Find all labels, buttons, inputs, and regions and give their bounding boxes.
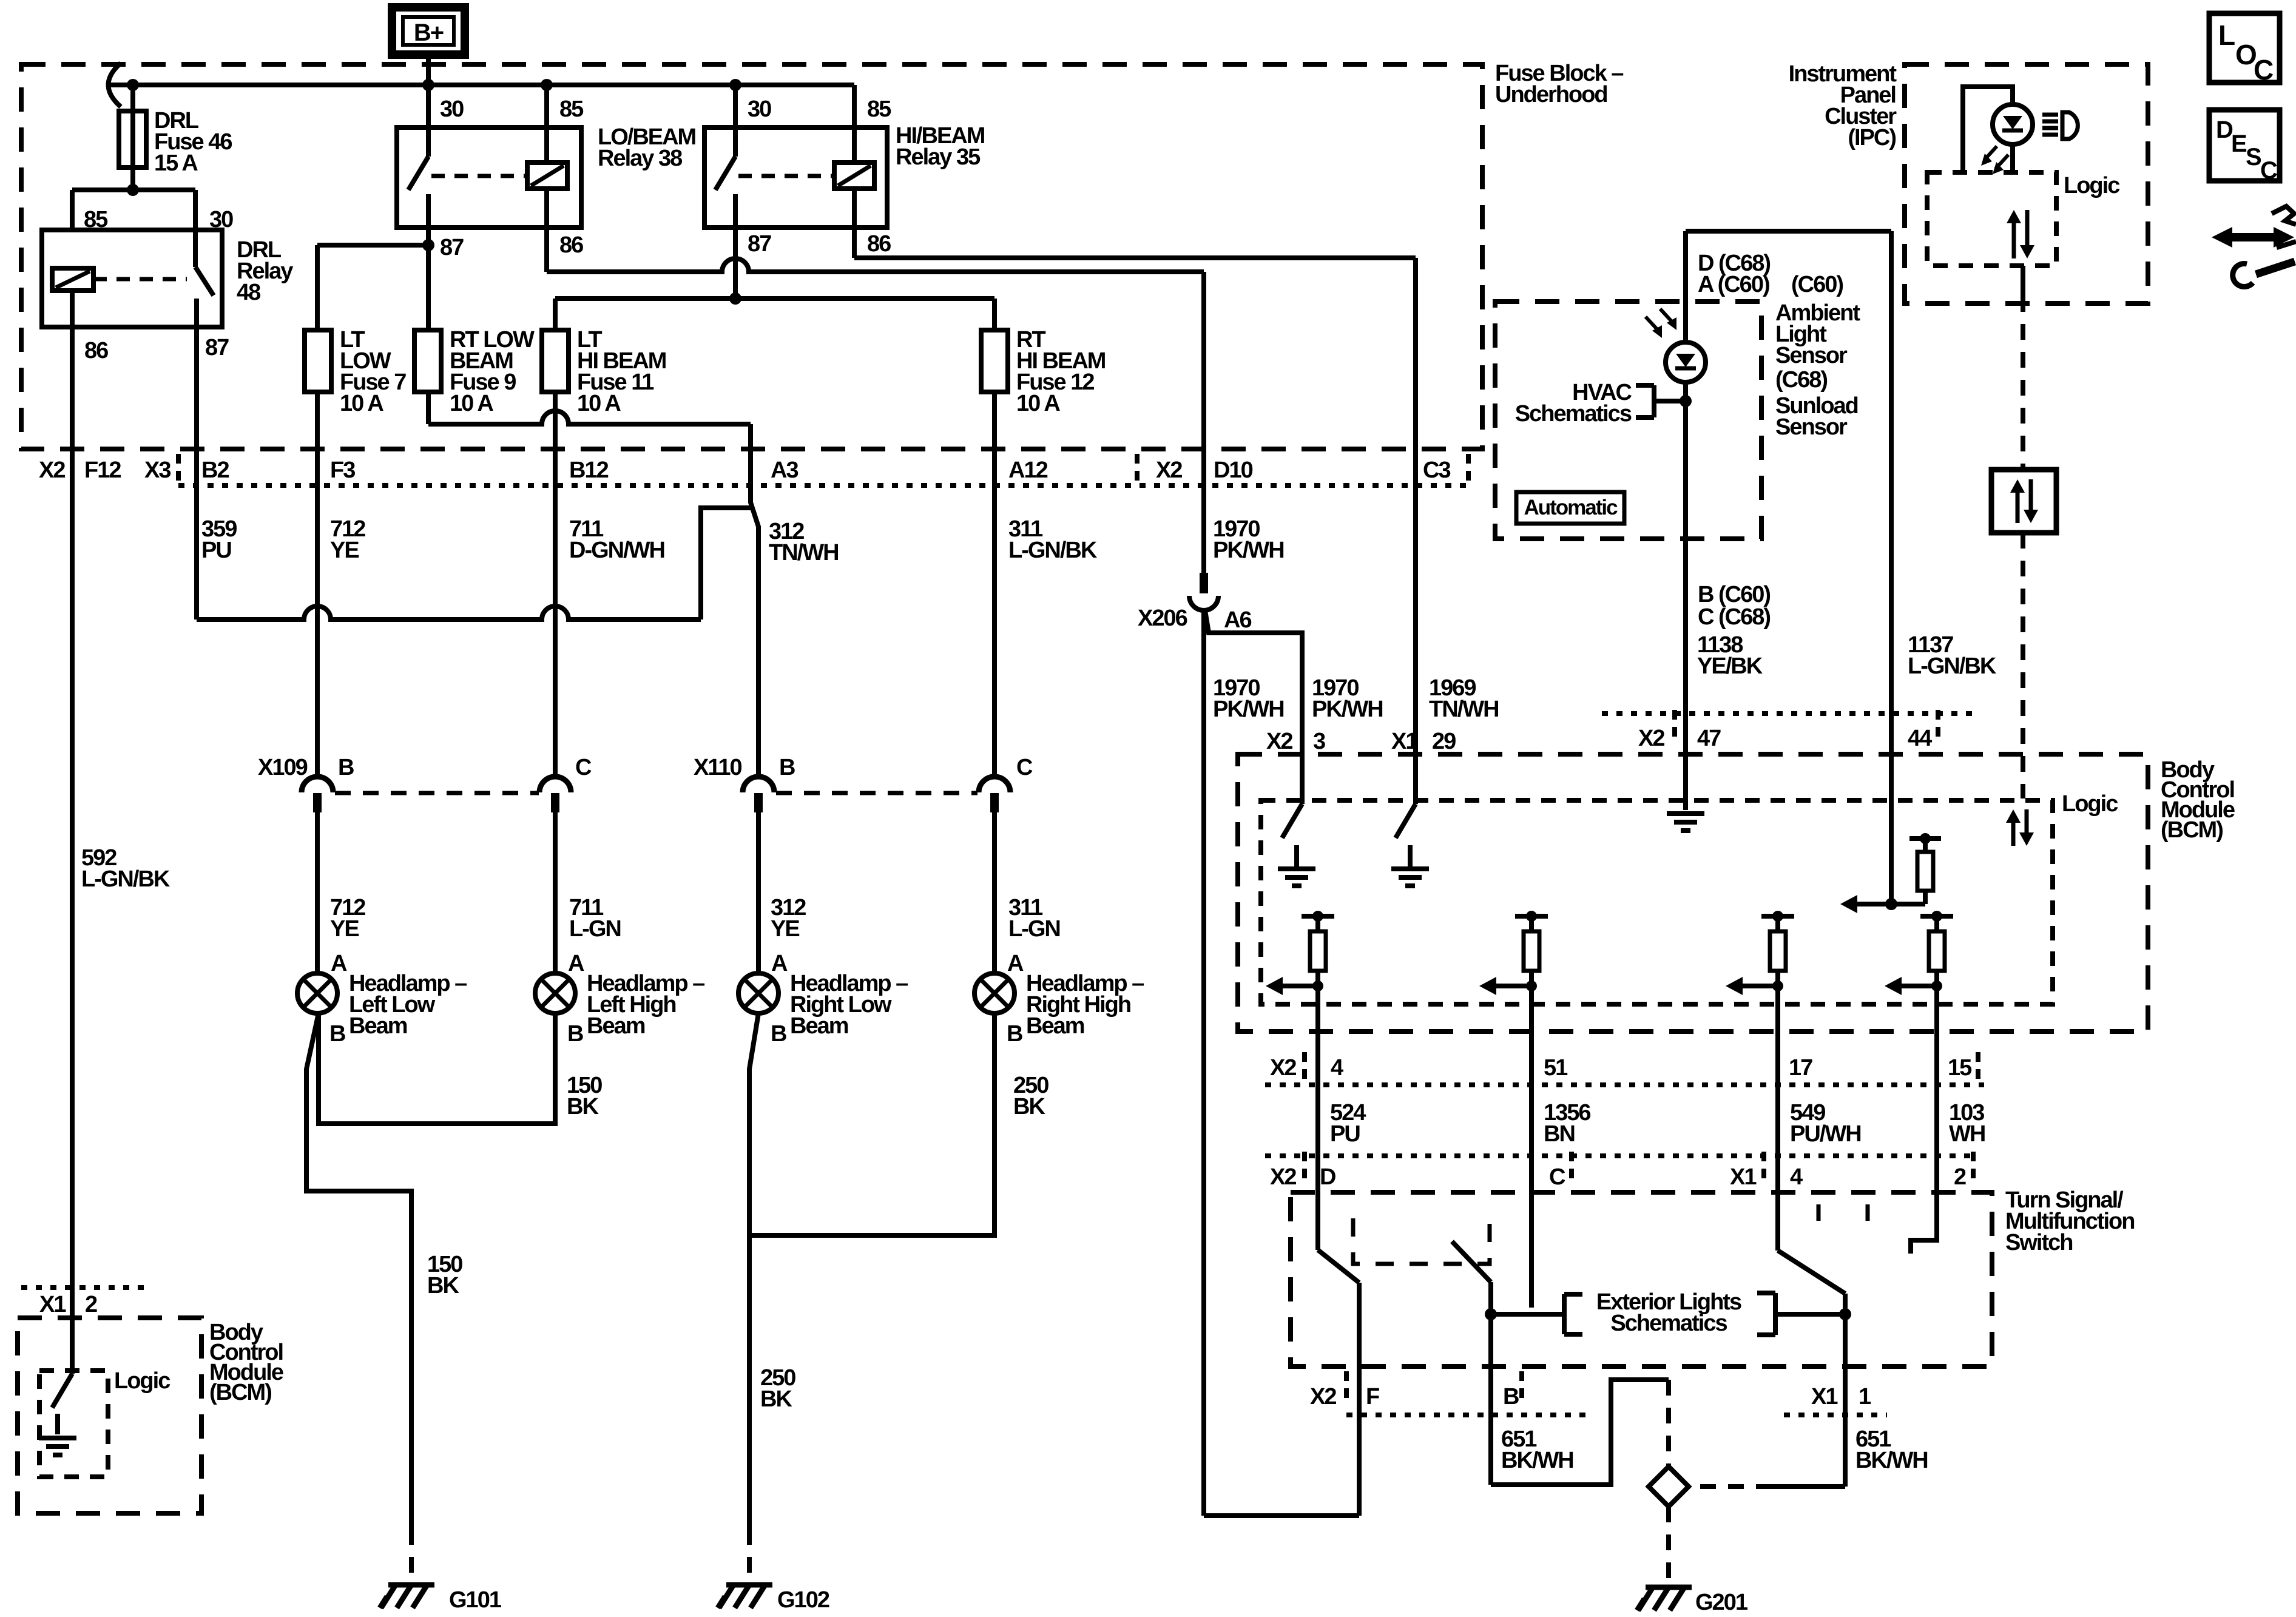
Exterior Lights callout right bracket <box>1773 1293 1778 1335</box>
wire 1356 BN <box>1529 986 1534 1308</box>
svg-text:48: 48 <box>237 280 260 305</box>
BCM internal ground for X2-47 <box>1683 754 1688 810</box>
svg-text:10 A: 10 A <box>340 391 383 416</box>
svg-text:X1: X1 <box>1811 1384 1838 1409</box>
bus continuation squiggle (off-page) <box>109 63 121 107</box>
svg-text:B: B <box>329 1021 345 1047</box>
wire 1970 PK/WH continues down from X206 <box>1201 609 1206 1516</box>
BCM Logic inner dashed box <box>1261 800 2053 1004</box>
wire 1970 PK/WH D10 down to X206 <box>1201 272 1206 573</box>
svg-text:Logic: Logic <box>114 1368 171 1394</box>
icon DESC box <box>2209 110 2280 181</box>
wire 150 BK left high beam return <box>319 1013 555 1124</box>
svg-text:BK: BK <box>567 1094 599 1119</box>
IPC Logic dashed box <box>1927 172 2056 266</box>
svg-text:L-GN/BK: L-GN/BK <box>81 866 171 892</box>
BCM top connector fine-dot line <box>1602 711 1978 716</box>
svg-text:C: C <box>575 755 592 780</box>
wire LO/BEAM pin87 to fuses 7/9 <box>426 228 431 245</box>
wire 1970 PK/WH branch to BCM X2-3 <box>1205 610 1302 804</box>
connector X109 pin B <box>302 777 333 792</box>
svg-text:PK/WH: PK/WH <box>1213 538 1284 563</box>
svg-text:PU: PU <box>1330 1121 1360 1147</box>
lamp Headlamp Right High Beam <box>974 973 1015 1013</box>
svg-text:85: 85 <box>84 207 108 232</box>
ground G201 <box>1646 1585 1692 1590</box>
svg-text:(BCM): (BCM) <box>2161 817 2223 843</box>
node B+ battery positive terminal <box>392 7 465 55</box>
BCM driver output pin51 <box>1515 914 1548 919</box>
wire dashed logic link continues to BCM <box>2021 533 2025 798</box>
svg-text:G201: G201 <box>1695 1590 1748 1615</box>
wire 359 PU from B2 <box>194 327 199 619</box>
svg-text:Sensor: Sensor <box>1775 343 1848 368</box>
svg-text:A: A <box>568 951 584 976</box>
wire 712 YE F3 to X109-B <box>315 392 320 777</box>
svg-text:L-GN: L-GN <box>1008 916 1060 942</box>
svg-text:A: A <box>771 951 788 976</box>
svg-text:YE: YE <box>330 538 359 563</box>
svg-text:PK/WH: PK/WH <box>1213 697 1284 722</box>
switch open contact pin 2 <box>1911 1192 1937 1254</box>
svg-text:86: 86 <box>559 232 583 258</box>
BCM bottom-left Logic dashed box <box>39 1371 108 1477</box>
svg-text:17: 17 <box>1789 1055 1812 1081</box>
svg-text:BK: BK <box>760 1386 792 1412</box>
svg-text:Logic: Logic <box>2064 173 2120 198</box>
svg-text:87: 87 <box>205 335 229 360</box>
wire 359 PU horizontal run with hops over 712 and 711 <box>197 606 701 619</box>
svg-text:Beam: Beam <box>1026 1013 1084 1039</box>
wire 250 BK right high beam return <box>749 1013 994 1235</box>
HVAC dashed box <box>1495 302 1761 539</box>
connector row fine-dot line under fuse block <box>178 483 1471 488</box>
svg-text:30: 30 <box>748 96 771 122</box>
relay HI/BEAM Relay 35 box <box>704 127 887 228</box>
wire dashed lead into G101 <box>409 1529 414 1578</box>
svg-text:2: 2 <box>85 1292 97 1317</box>
svg-text:D-GN/WH: D-GN/WH <box>569 538 664 563</box>
svg-text:F: F <box>1366 1384 1379 1409</box>
connector X109 dashed mate line <box>335 791 539 795</box>
svg-text:F12: F12 <box>84 457 121 483</box>
sensor ambient light / sunload photodiode <box>1666 342 1706 382</box>
svg-text:Beam: Beam <box>790 1013 848 1039</box>
svg-text:O: O <box>2235 39 2256 70</box>
svg-text:G102: G102 <box>777 1587 829 1613</box>
svg-text:X3: X3 <box>144 457 171 483</box>
svg-text:X1: X1 <box>1730 1164 1757 1190</box>
IPC/BCM interface up-down box <box>1991 470 2056 533</box>
svg-text:PU/WH: PU/WH <box>1790 1121 1861 1147</box>
lamp Headlamp Left Low Beam <box>297 973 337 1013</box>
relay HI/BEAM coil link dashed <box>738 174 834 178</box>
svg-text:D10: D10 <box>1214 457 1253 483</box>
svg-text:L-GN/BK: L-GN/BK <box>1908 653 1997 679</box>
svg-text:30: 30 <box>440 96 464 122</box>
wire 651 BK/WH from B <box>1488 1366 1493 1485</box>
switch mechanical dashed link left <box>1353 1218 1490 1264</box>
wire F output joins 1970 PK/WH <box>1357 1366 1362 1516</box>
wire left low beam ground lead to G101 <box>306 1013 411 1529</box>
BCM switch to ground for X1-29 <box>1396 804 1416 838</box>
wire 311 L-GN/BK A12 to X110-C <box>992 392 997 777</box>
fuse DRL Fuse 46 15A <box>130 85 135 190</box>
svg-text:YE: YE <box>330 916 359 942</box>
connector separator X3 <box>176 454 181 484</box>
svg-text:C: C <box>2260 157 2277 184</box>
relay LO/BEAM Relay 38 box <box>397 127 581 228</box>
svg-text:B12: B12 <box>569 457 609 483</box>
icon LOC box <box>2209 13 2280 83</box>
connector X110 pin B <box>743 777 774 792</box>
svg-text:S: S <box>2246 144 2261 170</box>
relay DRL Relay 48 box <box>42 230 222 327</box>
svg-text:B: B <box>779 755 795 780</box>
relay LO/BEAM coil link dashed <box>431 174 527 178</box>
wire 524 PU <box>1315 986 1320 1250</box>
svg-text:A (C60): A (C60) <box>1698 272 1769 297</box>
svg-text:A3: A3 <box>771 457 798 483</box>
fuse RT HI BEAM Fuse 12 10A <box>992 299 997 392</box>
wire DRL pin86 down (becomes 592) <box>70 291 75 327</box>
svg-text:BK: BK <box>427 1273 459 1298</box>
svg-text:(C60): (C60) <box>1791 272 1843 297</box>
wire 711 D-GN/WH B12 to X109-C <box>553 392 558 777</box>
BCM bottom connector labels <box>1265 1082 1984 1087</box>
svg-text:YE: YE <box>771 916 799 942</box>
svg-text:X109: X109 <box>258 755 308 780</box>
fuse LT LOW Fuse 7 10A <box>305 330 331 392</box>
svg-text:L-GN: L-GN <box>569 916 621 942</box>
switch blade pin 4 to 1 <box>1775 1192 1780 1251</box>
svg-text:15: 15 <box>1948 1055 1972 1081</box>
svg-text:D: D <box>2216 116 2233 143</box>
wire 651 BK/WH from X1-1 <box>1843 1366 1848 1487</box>
svg-text:YE/BK: YE/BK <box>1697 653 1763 679</box>
wire IPC logic to BCM (dashed logic link) <box>2021 266 2025 296</box>
connector X206 pin A6 <box>1200 573 1208 593</box>
svg-text:Logic: Logic <box>2062 791 2118 817</box>
connector X110 pin C <box>979 777 1010 792</box>
svg-text:F3: F3 <box>330 457 355 483</box>
svg-text:10 A: 10 A <box>450 391 493 416</box>
svg-text:X2: X2 <box>1270 1055 1296 1081</box>
connector X109 pin C <box>539 777 571 792</box>
switch blade second throw to Exterior Lights <box>1452 1241 1491 1282</box>
svg-text:X2: X2 <box>39 457 65 483</box>
svg-text:4: 4 <box>1790 1164 1803 1190</box>
svg-text:Beam: Beam <box>349 1013 407 1039</box>
svg-text:Schematics: Schematics <box>1610 1311 1727 1336</box>
svg-text:B2: B2 <box>201 457 229 483</box>
svg-text:87: 87 <box>748 231 771 257</box>
ground G102 <box>726 1582 772 1588</box>
Exterior Lights callout left bracket <box>1562 1294 1567 1334</box>
svg-text:87: 87 <box>440 235 464 260</box>
svg-text:G101: G101 <box>449 1587 502 1613</box>
wire LO/BEAM pin86 to D10 (hops pin87 of HI relay) <box>544 189 549 272</box>
wire 103 WH <box>1934 986 1939 1240</box>
svg-text:A6: A6 <box>1224 607 1251 633</box>
svg-text:X2: X2 <box>1270 1164 1296 1190</box>
fuse RT LOW BEAM Fuse 9 10A <box>426 245 431 392</box>
svg-text:3: 3 <box>1313 729 1325 754</box>
svg-text:B: B <box>1503 1384 1519 1409</box>
svg-text:B: B <box>1007 1021 1022 1047</box>
svg-text:10 A: 10 A <box>1016 391 1060 416</box>
lamp Headlamp Left High Beam <box>535 973 575 1013</box>
wire right low beam ground lead to G102 <box>749 1013 758 1529</box>
wire 592 L-GN/BK F12 to BCM <box>70 327 75 1374</box>
relay HI/BEAM switch blade <box>733 85 738 157</box>
svg-text:X206: X206 <box>1138 606 1187 631</box>
BCM logic up/down arrows <box>2011 818 2016 846</box>
svg-text:86: 86 <box>84 338 108 363</box>
Body Control Module (BCM) bottom-left dashed box <box>18 1318 201 1513</box>
IPC logic up/down arrows <box>2012 218 2016 258</box>
Turn Signal/Multifunction Switch dashed box <box>1291 1192 1992 1366</box>
svg-text:86: 86 <box>867 231 891 257</box>
wire sensor loop top <box>1686 229 1891 234</box>
svg-text:A12: A12 <box>1008 457 1048 483</box>
svg-text:A: A <box>331 951 347 976</box>
Turn Signal switch connector fine-dot line <box>1265 1153 1978 1158</box>
svg-text:X2: X2 <box>1310 1384 1336 1409</box>
svg-text:Relay 35: Relay 35 <box>896 144 981 170</box>
relay LO/BEAM coil <box>544 85 549 163</box>
BCM driver output pin4 <box>1302 914 1334 919</box>
fuse LT HI BEAM Fuse 11 10A <box>553 299 558 392</box>
svg-text:PU: PU <box>201 538 231 563</box>
wire sensor down to BCM X2-47 <box>1683 382 1688 754</box>
switch mechanical dashed marks right <box>1817 1204 1821 1221</box>
relay HI/BEAM coil <box>852 85 857 163</box>
svg-text:Beam: Beam <box>587 1013 645 1039</box>
svg-text:BK: BK <box>1013 1094 1045 1119</box>
svg-text:15 A: 15 A <box>154 150 198 176</box>
wire dashed diamond to G201 <box>1666 1507 1671 1580</box>
relay LO/BEAM switch blade <box>426 85 431 157</box>
svg-text:PK/WH: PK/WH <box>1312 697 1383 722</box>
svg-text:B (C60): B (C60) <box>1698 582 1770 607</box>
relay DRL coil <box>52 268 93 291</box>
svg-text:X1: X1 <box>1391 729 1418 754</box>
svg-text:85: 85 <box>867 96 891 122</box>
svg-text:29: 29 <box>1432 729 1456 754</box>
svg-text:BK/WH: BK/WH <box>1855 1448 1928 1473</box>
Body Control Module outer dashed box <box>1238 754 2148 1031</box>
svg-text:X110: X110 <box>694 755 742 780</box>
svg-text:BK/WH: BK/WH <box>1501 1448 1573 1473</box>
svg-text:X2: X2 <box>1156 457 1182 483</box>
wire 312 YE to right low lamp <box>756 812 761 973</box>
svg-text:Schematics: Schematics <box>1515 401 1632 427</box>
svg-text:E: E <box>2231 130 2247 157</box>
wire 712 YE to left low lamp <box>315 812 320 973</box>
wire fuse46 to DRL relay header <box>127 184 139 196</box>
Fuse Block - Underhood dashed outline <box>21 64 1482 449</box>
svg-text:2: 2 <box>1954 1164 1966 1190</box>
IPC high-beam indicator lamp <box>1993 104 2033 144</box>
relay DRL switch blade <box>193 230 198 267</box>
ground G101 <box>388 1582 434 1588</box>
svg-text:X2: X2 <box>1638 726 1664 751</box>
svg-text:L-GN/BK: L-GN/BK <box>1008 538 1098 563</box>
svg-text:A: A <box>1007 951 1024 976</box>
wire dashed into splice diamond <box>1666 1380 1671 1467</box>
svg-text:Sensor: Sensor <box>1775 414 1848 440</box>
wire dashed lead into G102 <box>747 1529 752 1578</box>
connector separator C3 <box>1466 454 1471 484</box>
svg-text:51: 51 <box>1544 1055 1568 1081</box>
HVAC Schematics callout bracket <box>1652 385 1656 417</box>
svg-text:C: C <box>1549 1164 1565 1190</box>
svg-text:X1: X1 <box>39 1292 66 1317</box>
svg-text:B+: B+ <box>414 19 444 46</box>
splice diamond <box>1649 1467 1689 1507</box>
svg-text:L: L <box>2218 19 2235 51</box>
wire 1969 TN/WH C3 to BCM X1-29 <box>1413 330 1418 449</box>
svg-text:30: 30 <box>209 207 233 232</box>
svg-text:B: B <box>771 1021 786 1047</box>
svg-text:BN: BN <box>1544 1121 1575 1147</box>
svg-text:1: 1 <box>1859 1384 1871 1409</box>
svg-text:C: C <box>1016 755 1033 780</box>
svg-text:4: 4 <box>1331 1055 1343 1081</box>
icon tools arrow+wrench <box>2227 233 2278 241</box>
BCM driver output pin15 <box>1920 914 1953 919</box>
wire HI/BEAM pin87 to fuses 11/12 <box>733 228 738 299</box>
wire top feed bus <box>107 83 854 87</box>
svg-text:TN/WH: TN/WH <box>769 540 839 565</box>
svg-text:Switch: Switch <box>2005 1230 2072 1255</box>
svg-text:B: B <box>567 1021 583 1047</box>
svg-text:Underhood: Underhood <box>1495 82 1607 107</box>
svg-text:(IPC): (IPC) <box>1848 125 1896 150</box>
svg-text:X2: X2 <box>1266 729 1292 754</box>
switch blade pin D to F <box>1315 1192 1320 1250</box>
Automatic label box <box>1516 492 1624 524</box>
svg-text:C3: C3 <box>1423 457 1450 483</box>
svg-text:(BCM): (BCM) <box>209 1380 271 1405</box>
svg-text:44: 44 <box>1908 726 1932 751</box>
connector X110 dashed mate line <box>776 791 977 795</box>
BCM driver output pin17 <box>1761 914 1794 919</box>
wire 549 PU/WH <box>1775 986 1780 1251</box>
wire 711 L-GN to left high lamp <box>553 812 558 973</box>
svg-text:47: 47 <box>1697 726 1721 751</box>
wire B+ to feed bus <box>426 53 431 85</box>
svg-text:C: C <box>2254 54 2273 86</box>
svg-text:TN/WH: TN/WH <box>1429 697 1499 722</box>
wire fuse9 to A3 (312 TN/WH) <box>426 392 431 424</box>
svg-text:Relay 38: Relay 38 <box>598 146 682 171</box>
svg-text:85: 85 <box>559 96 584 122</box>
svg-text:WH: WH <box>1949 1121 1985 1147</box>
connector separator A12/X2 <box>1135 454 1140 484</box>
BCM pin44 input driver with arrow <box>1889 754 1894 904</box>
svg-text:10 A: 10 A <box>577 391 621 416</box>
svg-text:(C68): (C68) <box>1775 367 1827 393</box>
lamp Headlamp Right Low Beam <box>738 973 778 1013</box>
Instrument Panel Cluster dashed box <box>1905 64 2148 303</box>
svg-text:C (C68): C (C68) <box>1698 604 1770 630</box>
BCM switch to ground for X2-3 <box>1282 804 1302 838</box>
svg-text:Automatic: Automatic <box>1524 496 1618 519</box>
svg-text:D: D <box>1320 1164 1335 1190</box>
BCM switch to ground for X1-2 <box>70 1318 75 1374</box>
icon headlamp beam symbol <box>2042 113 2058 117</box>
wire HI/BEAM pin86 to C3 <box>852 189 857 258</box>
wire 311 L-GN to right high lamp <box>992 812 997 973</box>
svg-text:B: B <box>338 755 354 780</box>
relay DRL coil link dashed <box>93 277 187 282</box>
wire indicator to logic <box>1963 87 2013 172</box>
junction dots on feed bus <box>127 79 139 91</box>
